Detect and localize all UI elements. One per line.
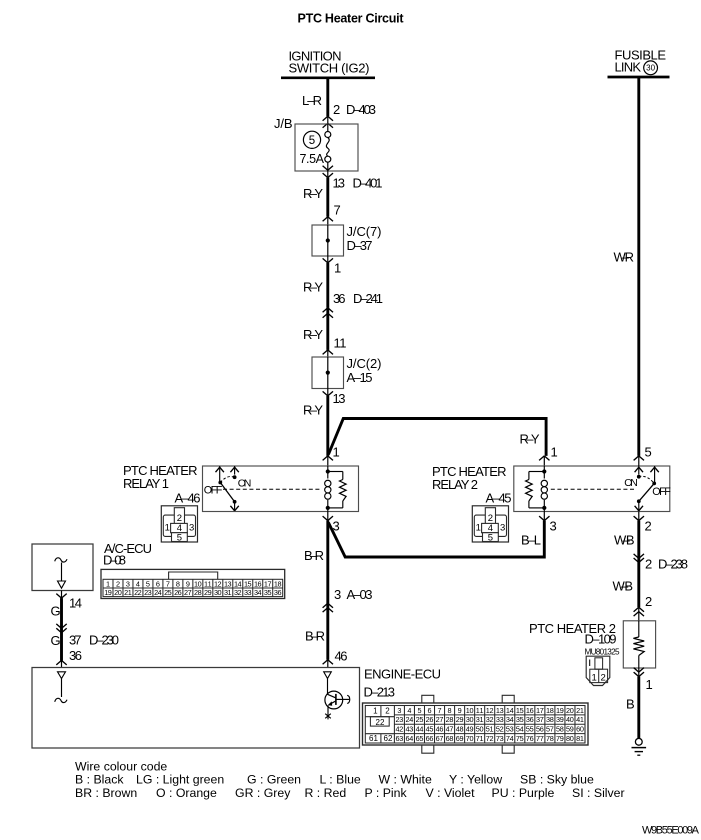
svg-text:PTC Heater Circuit: PTC Heater Circuit <box>298 12 405 26</box>
svg-text:40: 40 <box>566 715 574 724</box>
svg-text:1: 1 <box>551 445 558 460</box>
svg-text:37: 37 <box>536 715 544 724</box>
svg-text:16: 16 <box>526 706 534 715</box>
svg-text:B: B <box>626 697 635 712</box>
fuse symbol 7.5A <box>325 124 331 162</box>
svg-text:46: 46 <box>335 649 348 664</box>
connector arrow relay 1 pin 1 <box>323 456 333 466</box>
svg-text:29: 29 <box>204 588 212 597</box>
wire B to ground <box>637 677 640 739</box>
svg-text:J/B: J/B <box>274 116 293 131</box>
label pin 13 <box>333 391 346 406</box>
relay 2 OFF pivot dot <box>652 482 656 486</box>
svg-text:70: 70 <box>466 734 474 743</box>
svg-text:60: 60 <box>576 725 584 734</box>
svg-text:R : Red: R : Red <box>305 786 347 800</box>
relay 1 resistor <box>328 472 346 508</box>
svg-text:27: 27 <box>184 588 192 597</box>
connector arrow out of J/C(7) <box>323 256 333 263</box>
svg-text:45: 45 <box>426 725 434 734</box>
ground symbol <box>632 738 647 755</box>
label R-Y <box>303 186 323 201</box>
svg-text:69: 69 <box>456 734 464 743</box>
svg-text:SI : Silver: SI : Silver <box>572 786 625 800</box>
svg-text:D–109: D–109 <box>585 632 617 647</box>
label FUSIBLE LINK <box>615 47 667 74</box>
svg-text:13: 13 <box>333 176 346 191</box>
wire R-Y to D-241 <box>326 263 329 308</box>
label pin 2 <box>645 594 652 609</box>
svg-text:LG : Light green: LG : Light green <box>136 773 224 787</box>
connector D-401 arrows <box>323 162 333 177</box>
svg-text:14: 14 <box>69 596 82 611</box>
svg-text:ENGINE-ECU: ENGINE-ECU <box>364 667 441 682</box>
label B-L <box>521 533 541 548</box>
relay 1 blade lower arrow <box>230 502 238 511</box>
connector arrow relay 2 pin 5 <box>634 456 644 466</box>
label G <box>51 604 61 619</box>
label D-109 <box>585 632 617 647</box>
label pin 2 D-403 <box>333 102 376 117</box>
connector A-45 label <box>486 490 512 505</box>
label W-B <box>614 533 635 548</box>
relay 2 contact arrow ON-side <box>635 466 643 475</box>
ENGINE-ECU box <box>32 668 360 749</box>
drawing number W9B55E009A <box>642 825 700 837</box>
svg-text:32: 32 <box>234 588 242 597</box>
label B-R <box>304 548 324 563</box>
svg-text:53: 53 <box>506 725 514 734</box>
svg-text:35: 35 <box>516 715 524 724</box>
svg-text:W9B55E009A: W9B55E009A <box>642 825 700 837</box>
svg-text:A–15: A–15 <box>347 370 373 385</box>
wire colour code heading <box>75 759 167 773</box>
svg-text:2: 2 <box>601 673 606 684</box>
svg-text:11: 11 <box>334 336 347 351</box>
connector D-109 pinout <box>586 656 610 685</box>
svg-text:14: 14 <box>506 706 514 715</box>
svg-text:B–L: B–L <box>521 533 541 548</box>
svg-text:62: 62 <box>384 734 394 743</box>
emitter star mark <box>325 713 331 720</box>
svg-text:6: 6 <box>427 706 431 715</box>
label OFF <box>204 485 223 497</box>
svg-text:33: 33 <box>496 715 504 724</box>
svg-text:79: 79 <box>556 734 564 743</box>
svg-text:30: 30 <box>214 588 222 597</box>
svg-text:34: 34 <box>254 588 262 597</box>
svg-text:2: 2 <box>385 707 390 716</box>
connector arrow relay 2 pin 3 <box>539 512 549 521</box>
wire W-R from fusible link <box>637 77 640 456</box>
svg-text:2: 2 <box>645 557 652 572</box>
connector arrows into PTC heater 2 <box>634 607 644 621</box>
svg-text:26: 26 <box>174 588 182 597</box>
svg-text:P : Pink: P : Pink <box>365 786 408 800</box>
svg-text:26: 26 <box>426 715 434 724</box>
svg-text:30: 30 <box>646 64 656 73</box>
label ENGINE-ECU D-213 <box>364 667 442 700</box>
svg-text:2: 2 <box>645 594 652 609</box>
relay 2 dashed throw arc <box>639 476 654 483</box>
wire R-Y to J/C(7) <box>326 178 329 217</box>
svg-text:B : Black: B : Black <box>75 773 124 787</box>
label pin 3 A-03 <box>334 587 373 602</box>
svg-text:D–37: D–37 <box>347 238 373 253</box>
svg-text:8: 8 <box>448 706 452 715</box>
svg-text:3: 3 <box>397 706 401 715</box>
svg-text:RELAY 2: RELAY 2 <box>432 477 478 492</box>
svg-text:D–238: D–238 <box>658 557 688 572</box>
svg-text:34: 34 <box>506 715 514 724</box>
svg-text:38: 38 <box>546 715 554 724</box>
svg-text:RELAY 1: RELAY 1 <box>123 476 169 491</box>
wire W-B relay 2 pin 2 down <box>637 521 640 608</box>
svg-text:39: 39 <box>556 715 564 724</box>
connector D-403 arrows <box>323 116 333 127</box>
label pin 46 <box>335 649 348 664</box>
svg-text:5: 5 <box>177 532 182 543</box>
svg-text:OFF: OFF <box>204 485 223 497</box>
joint connector J/C(2) box <box>312 357 344 389</box>
svg-text:4: 4 <box>407 706 411 715</box>
label pin 2 of relay 2 <box>645 519 652 534</box>
label R-Y at relay 2 <box>520 432 540 447</box>
A/C-ECU box <box>32 544 93 591</box>
label PTC HEATER RELAY 2 <box>432 464 507 492</box>
svg-text:48: 48 <box>456 725 464 734</box>
fusible link rating circle 30 <box>644 61 658 75</box>
fusible link supply bar <box>608 76 670 79</box>
svg-text:J/C(2): J/C(2) <box>347 356 382 371</box>
A/C-ECU connector D-08 pin table <box>101 569 285 598</box>
svg-text:ON: ON <box>624 477 638 489</box>
connector arrow into engine ECU pin 36 <box>56 660 66 667</box>
svg-text:W–R: W–R <box>614 250 635 265</box>
label PTC HEATER 2 <box>529 621 616 636</box>
engine ECU transistor input triangle <box>324 672 332 679</box>
svg-text:21: 21 <box>124 588 132 597</box>
svg-text:75: 75 <box>516 734 524 743</box>
svg-text:J/C(7): J/C(7) <box>347 224 382 239</box>
svg-text:46: 46 <box>436 725 444 734</box>
svg-text:23: 23 <box>396 715 404 724</box>
connector arrows out of PTC heater 2 <box>634 668 644 677</box>
relay 1 OFF pivot dot <box>218 481 222 485</box>
svg-text:3: 3 <box>189 523 194 534</box>
svg-text:2: 2 <box>333 102 340 117</box>
svg-text:66: 66 <box>426 734 434 743</box>
svg-text:OFF: OFF <box>652 486 671 498</box>
svg-text:5: 5 <box>645 445 652 460</box>
transistor collector wire <box>327 679 329 695</box>
svg-text:Wire colour code: Wire colour code <box>75 759 167 773</box>
svg-text:3: 3 <box>500 523 505 534</box>
svg-text:33: 33 <box>244 588 252 597</box>
svg-text:68: 68 <box>446 734 454 743</box>
svg-text:78: 78 <box>546 734 554 743</box>
connector A-46 pinout <box>161 506 197 544</box>
svg-text:63: 63 <box>396 734 404 743</box>
svg-text:R–Y: R–Y <box>520 432 540 447</box>
svg-text:28: 28 <box>194 588 202 597</box>
label W-B lower <box>613 579 634 594</box>
connector arrow relay 2 pin 2 <box>634 512 644 521</box>
label J/B <box>274 116 293 131</box>
svg-text:47: 47 <box>446 725 454 734</box>
svg-text:15: 15 <box>516 706 524 715</box>
svg-text:54: 54 <box>516 725 524 734</box>
svg-text:G: G <box>51 604 61 619</box>
engine ECU input symbol from A/C-ECU <box>55 672 67 703</box>
A/C-ECU internal driver symbol <box>55 558 67 588</box>
label PTC HEATER RELAY 1 <box>123 463 198 491</box>
relay 2 contact arrow OFF-side <box>650 466 658 483</box>
svg-text:50: 50 <box>476 725 484 734</box>
label R-Y <box>303 280 323 295</box>
svg-text:25: 25 <box>164 588 172 597</box>
svg-text:7.5A: 7.5A <box>300 152 325 166</box>
svg-text:23: 23 <box>144 588 152 597</box>
svg-text:18: 18 <box>546 706 554 715</box>
connector arrow into J/C(7) <box>323 217 333 225</box>
svg-text:A–45: A–45 <box>486 490 512 505</box>
svg-text:80: 80 <box>566 734 574 743</box>
svg-text:7: 7 <box>438 706 442 715</box>
svg-text:SB : Sky blue: SB : Sky blue <box>520 773 594 787</box>
svg-text:PU : Purple: PU : Purple <box>492 786 555 800</box>
label pin 1 of relay 1 <box>333 445 340 460</box>
svg-text:LINK: LINK <box>615 60 642 75</box>
svg-text:73: 73 <box>496 734 504 743</box>
svg-text:1: 1 <box>592 673 597 684</box>
label pin 11 <box>334 336 347 351</box>
connector arrow into J/C(2) <box>323 350 333 357</box>
svg-text:37: 37 <box>69 632 82 647</box>
wire colour code line 1 <box>75 773 594 787</box>
svg-text:10: 10 <box>466 706 474 715</box>
svg-text:BR : Brown: BR : Brown <box>75 786 137 800</box>
relay 2 resistor <box>526 472 545 508</box>
transistor emitter wire <box>327 706 329 713</box>
svg-text:1: 1 <box>373 707 378 716</box>
svg-text:17: 17 <box>536 706 544 715</box>
D-213 pin numbers <box>369 706 584 743</box>
svg-text:1: 1 <box>476 523 481 534</box>
label B <box>626 697 635 712</box>
svg-text:28: 28 <box>446 715 454 724</box>
label pin 2 D-238 <box>645 557 688 572</box>
svg-text:22: 22 <box>376 718 386 727</box>
svg-text:D–403: D–403 <box>346 102 376 117</box>
J/C(7) internal wire and node <box>326 225 330 256</box>
svg-text:36: 36 <box>274 588 282 597</box>
svg-text:W–B: W–B <box>614 533 635 548</box>
label R-Y <box>303 327 323 342</box>
svg-text:44: 44 <box>416 725 424 734</box>
label J/C(2) A-15 <box>347 356 382 385</box>
connector arrow relay 1 pin 3 <box>323 512 333 521</box>
label pin 13 D-401 <box>333 176 383 191</box>
svg-text:G : Green: G : Green <box>247 773 301 787</box>
svg-text:1: 1 <box>334 261 341 276</box>
svg-text:1: 1 <box>333 445 340 460</box>
relay 1 contact arrow OFF-side <box>216 466 224 482</box>
ENGINE-ECU connector D-213 pin table <box>363 695 589 753</box>
svg-text:24: 24 <box>406 715 414 724</box>
svg-text:67: 67 <box>436 734 444 743</box>
svg-text:D–08: D–08 <box>103 552 126 567</box>
svg-text:19: 19 <box>104 588 112 597</box>
svg-text:2: 2 <box>645 519 652 534</box>
svg-text:5: 5 <box>417 706 421 715</box>
svg-text:O : Orange: O : Orange <box>156 786 217 800</box>
svg-text:22: 22 <box>134 588 142 597</box>
label ON relay2 <box>624 477 638 489</box>
svg-text:D–213: D–213 <box>364 684 396 699</box>
label pin 1 of relay 2 <box>551 445 558 460</box>
svg-text:25: 25 <box>416 715 424 724</box>
label pin 14 <box>69 596 82 611</box>
svg-text:V : Violet: V : Violet <box>426 786 476 800</box>
relay 2 blade lower arrow <box>635 501 643 511</box>
svg-text:24: 24 <box>154 588 162 597</box>
svg-text:A–46: A–46 <box>175 490 201 505</box>
label pin 3 of relay 1 <box>333 519 340 534</box>
label L-R <box>302 93 322 108</box>
wire R-Y to J/C(2) <box>326 308 329 350</box>
relay 1 dashed throw arc <box>220 477 234 483</box>
label pin 36 <box>69 648 82 663</box>
svg-text:W–B: W–B <box>613 579 634 594</box>
relay 1 contact arrow ON-side <box>230 466 238 475</box>
connector A-45 pinout <box>472 506 508 544</box>
svg-text:ON: ON <box>238 477 252 489</box>
svg-text:59: 59 <box>566 725 574 734</box>
wire G from A/C-ECU <box>60 598 63 660</box>
label pin 36 D-241 <box>333 291 383 306</box>
svg-text:74: 74 <box>506 734 514 743</box>
wire R-Y to relay 1 <box>326 396 329 456</box>
PTC heater 2 resistor element <box>633 621 644 668</box>
label pin 7 <box>334 203 341 218</box>
svg-text:64: 64 <box>406 734 414 743</box>
label 7.5A <box>300 152 325 166</box>
fuse number circle 5 <box>303 131 320 148</box>
svg-text:52: 52 <box>496 725 504 734</box>
svg-text:36: 36 <box>526 715 534 724</box>
connector A-03 arrows <box>323 603 333 612</box>
label pin 1 <box>646 677 653 692</box>
svg-text:36: 36 <box>333 291 346 306</box>
svg-text:13: 13 <box>496 706 504 715</box>
relay 1 switch blade <box>220 483 236 504</box>
svg-text:Y : Yellow: Y : Yellow <box>449 773 502 787</box>
title: PTC Heater Circuit <box>298 12 405 26</box>
svg-text:57: 57 <box>546 725 554 734</box>
svg-text:L–R: L–R <box>302 93 322 108</box>
svg-text:7: 7 <box>334 203 341 218</box>
junction block J/B box <box>295 124 358 171</box>
connector D-238 arrows <box>634 554 644 563</box>
label IGNITION SWITCH (IG2) <box>289 49 370 76</box>
svg-text:61: 61 <box>369 734 379 743</box>
label J/C(7) D-37 <box>347 224 382 253</box>
svg-text:20: 20 <box>566 706 574 715</box>
label R-Y <box>303 403 323 418</box>
svg-text:W : White: W : White <box>379 773 432 787</box>
svg-text:L : Blue: L : Blue <box>320 773 361 787</box>
svg-text:81: 81 <box>576 734 584 743</box>
svg-text:MU801325: MU801325 <box>585 648 620 657</box>
connector D-241 arrows <box>323 308 333 318</box>
svg-text:3: 3 <box>550 519 557 534</box>
svg-text:3: 3 <box>334 587 341 602</box>
D-08 pin numbers <box>104 579 281 597</box>
svg-text:32: 32 <box>486 715 494 724</box>
svg-text:5: 5 <box>488 532 493 543</box>
svg-text:42: 42 <box>396 725 404 734</box>
label W-R <box>614 250 635 265</box>
svg-text:1: 1 <box>165 523 170 534</box>
wire B-R relay1 to engine ECU <box>326 521 329 660</box>
connector D-230 arrows <box>56 624 66 633</box>
svg-text:R–Y: R–Y <box>303 280 323 295</box>
relay 1 ON contact dot <box>233 475 237 479</box>
svg-text:SWITCH (IG2): SWITCH (IG2) <box>289 61 370 76</box>
label pin 37 D-230 <box>69 632 119 647</box>
label pin 3 of relay 2 <box>550 519 557 534</box>
svg-text:55: 55 <box>526 725 534 734</box>
svg-text:13: 13 <box>333 391 346 406</box>
svg-text:D–241: D–241 <box>353 291 383 306</box>
label ON <box>238 477 252 489</box>
wire B-L from relay 2 pin 3 to main B-R wire <box>328 521 544 557</box>
PTC heater 2 box <box>623 621 655 668</box>
svg-text:30: 30 <box>466 715 474 724</box>
connector arrow A/C-ECU pin 14 <box>56 591 66 599</box>
svg-text:36: 36 <box>69 648 82 663</box>
relay 2 coil <box>541 466 547 512</box>
wire R-Y branch to relay 2 <box>328 419 546 456</box>
svg-text:56: 56 <box>536 725 544 734</box>
svg-text:65: 65 <box>416 734 424 743</box>
label B-R lower <box>305 629 325 644</box>
svg-text:A–03: A–03 <box>347 587 373 602</box>
relay 1 dashed link to coil <box>223 488 321 490</box>
svg-text:12: 12 <box>486 706 494 715</box>
PTC heater relay 2 box <box>514 466 670 512</box>
label OFF relay2 <box>652 486 671 498</box>
label pin 1 <box>334 261 341 276</box>
svg-text:D–401: D–401 <box>353 176 383 191</box>
svg-text:77: 77 <box>536 734 544 743</box>
PTC heater relay 1 box <box>203 466 359 512</box>
label A/C-ECU D-08 <box>103 541 152 568</box>
svg-text:9: 9 <box>458 706 462 715</box>
svg-text:31: 31 <box>476 715 484 724</box>
wire L-R from ignition switch <box>326 78 329 117</box>
svg-text:71: 71 <box>476 734 484 743</box>
label MU801325 <box>585 648 620 657</box>
label G lower <box>51 633 61 648</box>
svg-text:B–R: B–R <box>304 548 324 563</box>
svg-text:B–R: B–R <box>305 629 325 644</box>
svg-text:20: 20 <box>114 588 122 597</box>
svg-text:R–Y: R–Y <box>303 186 323 201</box>
svg-text:R–Y: R–Y <box>303 403 323 418</box>
svg-text:G: G <box>51 633 61 648</box>
